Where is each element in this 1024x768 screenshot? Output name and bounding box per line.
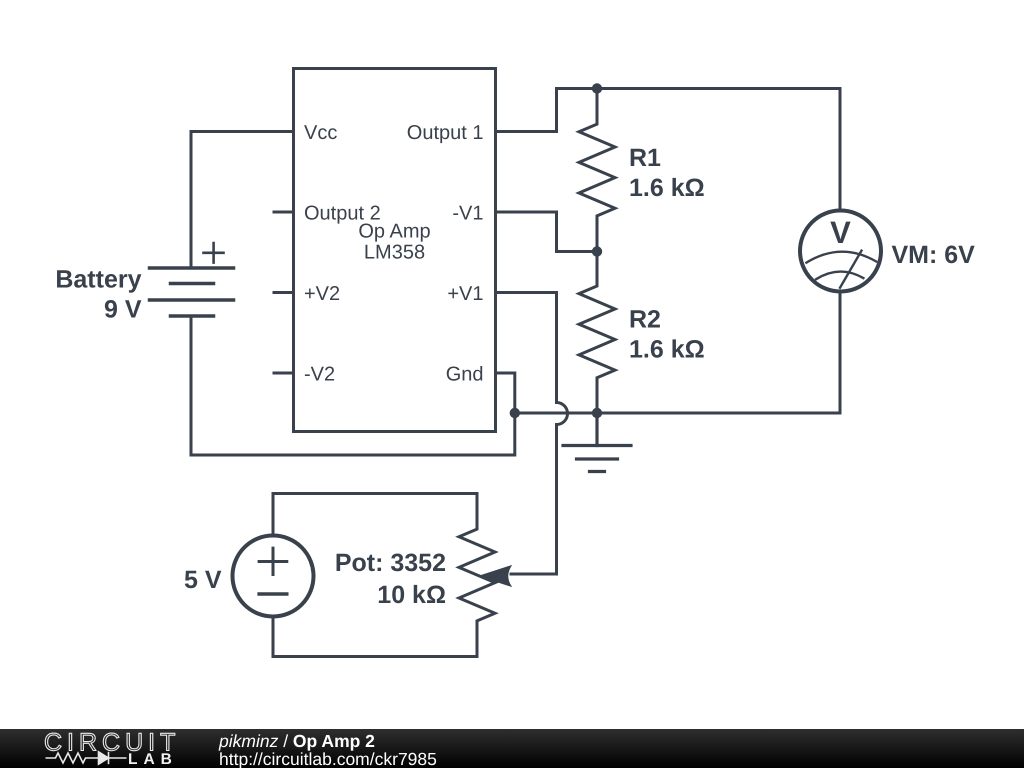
pot wiper arrowhead [480,566,512,586]
wire battery negative to ground node [191,316,515,455]
svg-text:Vcc: Vcc [304,122,337,144]
svg-text:VM: 6V: VM: 6V [892,241,976,269]
svg-text:5 V: 5 V [184,566,222,594]
op-amp U1 box [294,69,496,432]
voltmeter needle [840,251,862,288]
svg-text:pikminz / Op Amp 2: pikminz / Op Amp 2 [218,731,375,751]
CircuitLab logo resistor+diode glyph [46,752,127,764]
pin stub Output 2 [274,211,294,214]
svg-text:Gnd: Gnd [446,364,484,386]
junction node ground bus left [510,408,520,418]
wire bottom bus to voltmeter bottom [515,291,840,413]
battery BAT1 plates [150,268,234,316]
svg-text:-V1: -V1 [452,203,483,225]
svg-text:+V1: +V1 [447,283,483,305]
pin stub +V2 [274,291,294,294]
wire +V1 to pot wiper (with hop over bottom bus) [496,293,568,575]
svg-text:http://circuitlab.com/ckr7985: http://circuitlab.com/ckr7985 [219,749,437,768]
svg-text:LM358: LM358 [364,242,425,264]
potentiometer POT1 body [459,494,495,657]
svg-text:Battery: Battery [55,266,141,294]
svg-text:R2: R2 [629,306,661,334]
voltage source plus sign [259,548,287,574]
svg-text:Pot: 3352: Pot: 3352 [335,549,446,577]
junction node ground bus at R2 [592,408,602,418]
svg-text:1.6 kΩ: 1.6 kΩ [629,336,705,364]
svg-text:Output 1: Output 1 [407,122,484,144]
junction node A (Output1/R1) [592,83,602,93]
pin stub -V2 [274,372,294,375]
svg-text:R1: R1 [629,144,661,172]
wire Gnd pin down to bottom bus [496,373,515,413]
svg-text:+V2: +V2 [304,283,340,305]
wire Output 1 to node A and voltmeter top [496,89,841,211]
wire pot bottom to 5V source bottom [273,617,477,657]
resistor R1 [579,89,615,252]
battery plus sign [204,243,224,263]
svg-text:Op Amp: Op Amp [358,221,430,243]
voltage source V1 (5V) circle [233,536,314,617]
voltage source minus sign [259,592,287,595]
svg-text:-V2: -V2 [304,364,335,386]
wire 5V source top to pot top [273,494,477,536]
wire -V1 to node B [496,212,594,252]
svg-text:LAB: LAB [128,751,178,768]
ground symbol [563,413,631,472]
voltmeter VM circle [800,211,881,292]
svg-text:1.6 kΩ: 1.6 kΩ [629,174,705,202]
voltmeter scale arcs [806,251,876,288]
svg-text:10 kΩ: 10 kΩ [377,581,446,609]
junction node B (R1/R2/-V1) [592,246,602,256]
svg-text:9 V: 9 V [104,296,142,324]
wire Vcc to battery positive [191,132,294,269]
resistor R2 [579,252,615,414]
svg-text:V: V [830,215,851,250]
